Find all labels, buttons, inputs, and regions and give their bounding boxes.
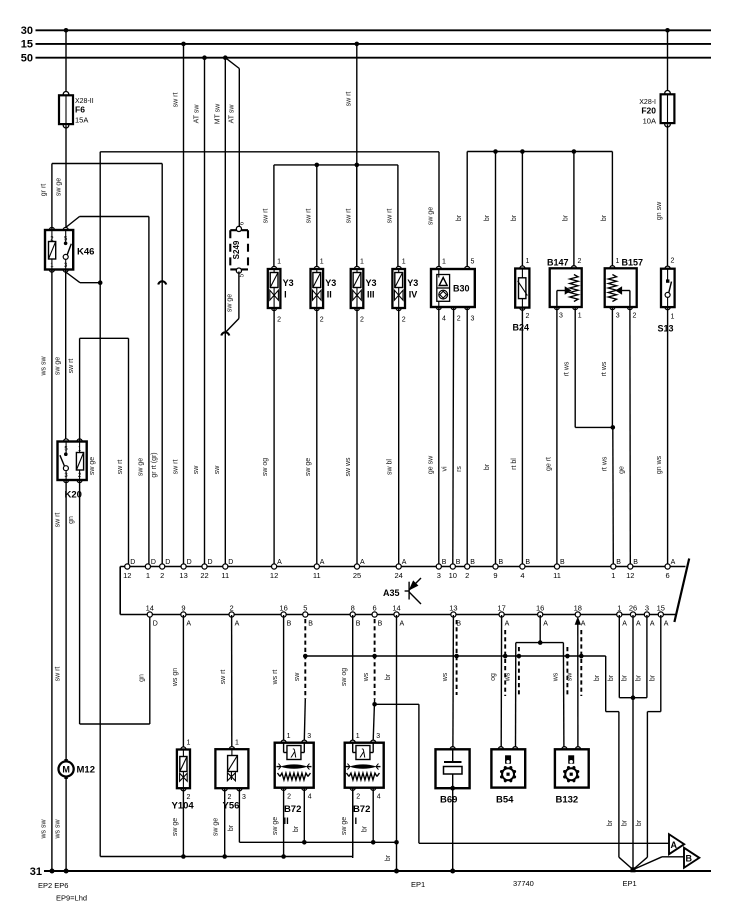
svg-text:2: 2 bbox=[633, 313, 637, 320]
svg-text:4: 4 bbox=[520, 571, 524, 580]
svg-text:B72: B72 bbox=[353, 804, 370, 815]
svg-text:9: 9 bbox=[493, 571, 497, 580]
wire br to B24 pin1 bbox=[520, 149, 525, 154]
svg-text:2: 2 bbox=[160, 571, 164, 580]
svg-text:A: A bbox=[402, 559, 407, 566]
capacitor B69 bbox=[450, 747, 455, 752]
svg-text:sw rt: sw rt bbox=[345, 92, 352, 107]
svg-text:br: br bbox=[362, 825, 369, 832]
svg-text:B54: B54 bbox=[496, 795, 514, 806]
sensor B24 bbox=[520, 266, 525, 271]
sensor B54 bbox=[498, 747, 503, 752]
A35 bottom pin 1A bbox=[617, 612, 622, 617]
svg-text:11: 11 bbox=[553, 571, 561, 580]
splice on gr rt wire bbox=[158, 281, 166, 284]
A35 bottom pin 8B bbox=[350, 612, 355, 617]
A35 bottom pin 18A bbox=[575, 612, 580, 617]
svg-text:1: 1 bbox=[442, 259, 446, 266]
svg-text:1: 1 bbox=[360, 259, 364, 266]
wire B72 II pin4 br bbox=[303, 788, 305, 843]
wire A35 B8 sw og to B72-I pin1 bbox=[352, 615, 354, 740]
wire sw ge horizontal to B30 pin1 bbox=[100, 151, 439, 153]
shield bus bbox=[305, 655, 605, 657]
svg-text:Y3: Y3 bbox=[325, 278, 336, 288]
svg-text:A: A bbox=[671, 559, 676, 566]
svg-text:br: br bbox=[385, 854, 392, 861]
ground point EP1 bbox=[631, 867, 636, 872]
svg-text:13: 13 bbox=[179, 571, 187, 580]
svg-text:30: 30 bbox=[21, 25, 33, 37]
svg-text:sw ge: sw ge bbox=[272, 817, 279, 835]
A35 bottom pin 16A bbox=[538, 612, 543, 617]
svg-text:EP2 EP6: EP2 EP6 bbox=[38, 881, 68, 890]
svg-text:sw ge: sw ge bbox=[172, 818, 179, 836]
svg-text:EP9=Lhd: EP9=Lhd bbox=[56, 894, 87, 903]
off-page arrow A bbox=[669, 834, 684, 854]
svg-text:1: 1 bbox=[320, 259, 324, 266]
A35 top pin A24 bbox=[396, 564, 401, 569]
svg-text:sw ge: sw ge bbox=[89, 457, 96, 475]
svg-text:3: 3 bbox=[242, 794, 246, 801]
wire sw rt bus15 to Y3 III bbox=[356, 44, 358, 267]
svg-text:λ: λ bbox=[290, 747, 297, 761]
shield wire at A18 bbox=[580, 630, 582, 696]
wire K46 pin1 ws sw to bus31 bbox=[51, 270, 53, 872]
svg-text:A: A bbox=[636, 621, 641, 628]
svg-text:A: A bbox=[622, 621, 627, 628]
svg-text:M: M bbox=[62, 764, 70, 774]
svg-text:16: 16 bbox=[536, 604, 544, 613]
wire MT sw bus50 to A35 D11 bbox=[224, 58, 226, 564]
A35 top pin D13 bbox=[181, 564, 186, 569]
svg-text:ws sw: ws sw bbox=[55, 819, 62, 840]
lambda sensor B72 I bbox=[350, 740, 355, 745]
sensor B157 bbox=[610, 266, 615, 271]
svg-text:gr rt: gr rt bbox=[40, 184, 47, 197]
svg-text:I: I bbox=[355, 816, 358, 827]
valve Y3 II bbox=[314, 266, 319, 271]
svg-text:λ: λ bbox=[359, 747, 366, 761]
svg-text:br: br bbox=[511, 214, 518, 221]
svg-text:1: 1 bbox=[187, 740, 191, 747]
svg-text:A: A bbox=[400, 621, 405, 628]
sensor B147 bbox=[571, 266, 576, 271]
wire Y3 III pin2 sw ws to A35 bbox=[356, 308, 358, 564]
sw ge bottom bus bbox=[100, 856, 353, 858]
bus 31 bbox=[44, 870, 711, 872]
wire A35 A26 br to EP1 bbox=[632, 615, 634, 870]
svg-text:B: B bbox=[616, 559, 621, 566]
svg-text:MT sw: MT sw bbox=[214, 103, 221, 124]
svg-text:Y3: Y3 bbox=[407, 278, 418, 288]
svg-text:5: 5 bbox=[471, 259, 475, 266]
svg-text:ge rt: ge rt bbox=[546, 457, 553, 471]
wire F20 to S13 pin2 bbox=[667, 124, 669, 266]
svg-text:1: 1 bbox=[611, 571, 615, 580]
svg-text:6: 6 bbox=[373, 604, 377, 613]
ECU A35 bbox=[119, 567, 121, 615]
wire K46 pin3 branch to sw ge riser bbox=[66, 272, 80, 283]
wire B72 I pin4 br bbox=[372, 788, 374, 843]
svg-text:br: br bbox=[594, 674, 601, 681]
svg-text:15A: 15A bbox=[75, 116, 88, 125]
wire K46 pin2 gr rt to A35 D2 bbox=[51, 164, 53, 231]
junction bus50/AT bbox=[202, 55, 207, 60]
A35 connector symbol bbox=[408, 582, 410, 600]
svg-text:br: br bbox=[293, 825, 300, 832]
svg-text:ws gn: ws gn bbox=[172, 668, 179, 687]
svg-text:rt ws: rt ws bbox=[564, 361, 571, 376]
A35 bottom pin 13B bbox=[451, 612, 456, 617]
svg-text:EP1: EP1 bbox=[623, 879, 637, 888]
wire br to B147 pin2 bbox=[572, 149, 577, 154]
svg-text:3: 3 bbox=[616, 313, 620, 320]
wire K20 pin2 gn to A35 D14 bbox=[79, 480, 81, 724]
wire B157 pin2 ge to A35 B12 bbox=[629, 307, 631, 564]
svg-text:37740: 37740 bbox=[513, 879, 534, 888]
wire B30 pin2 vi to A35 B10 bbox=[452, 307, 455, 564]
svg-text:sw: sw bbox=[214, 465, 221, 475]
svg-text:11: 11 bbox=[313, 571, 321, 580]
svg-text:ws sw: ws sw bbox=[40, 356, 47, 377]
svg-text:B: B bbox=[633, 559, 638, 566]
svg-text:A: A bbox=[277, 559, 282, 566]
svg-text:B: B bbox=[525, 559, 530, 566]
wire bus30 to F6 bbox=[65, 30, 67, 94]
svg-text:br: br bbox=[649, 674, 656, 681]
svg-text:F6: F6 bbox=[75, 105, 85, 115]
svg-text:B: B bbox=[470, 559, 475, 566]
svg-text:sw rt: sw rt bbox=[305, 209, 312, 224]
svg-text:rt ws: rt ws bbox=[601, 361, 608, 376]
wire br to A35 B9 bbox=[493, 149, 498, 154]
wire M12 ws sw to bus31 bbox=[65, 778, 67, 872]
fuse F6 bbox=[63, 92, 69, 98]
wire A35 A2 sw rt to Y56 bbox=[231, 615, 233, 747]
svg-text:A: A bbox=[671, 840, 678, 850]
wire sw ge riser/top feed bbox=[99, 152, 101, 857]
svg-text:26: 26 bbox=[629, 604, 637, 613]
relay K20 bbox=[64, 439, 69, 444]
relay K46 bbox=[49, 227, 54, 232]
svg-text:AT sw: AT sw bbox=[194, 104, 201, 124]
svg-text:1: 1 bbox=[616, 258, 620, 265]
wire Y3 I pin2 sw og to A35 bbox=[273, 308, 275, 564]
svg-text:1: 1 bbox=[287, 733, 291, 740]
svg-text:sw rt: sw rt bbox=[386, 209, 393, 224]
svg-text:rs: rs bbox=[456, 466, 463, 472]
A35 top pin D1 bbox=[145, 564, 150, 569]
svg-text:1: 1 bbox=[402, 259, 406, 266]
svg-text:50: 50 bbox=[21, 53, 33, 65]
A35 top pin B9 bbox=[493, 564, 498, 569]
svg-text:1: 1 bbox=[578, 313, 582, 320]
wire A35 B16 ws rt to B72-II pin1 bbox=[283, 615, 285, 740]
svg-text:2: 2 bbox=[465, 571, 469, 580]
svg-text:ws sw: ws sw bbox=[40, 819, 47, 840]
svg-text:D: D bbox=[151, 559, 156, 566]
A35 top pin D22 bbox=[202, 564, 207, 569]
svg-text:1: 1 bbox=[356, 733, 360, 740]
A35 bottom pin 2A bbox=[229, 612, 234, 617]
wire A35 A1 br bbox=[618, 615, 620, 698]
svg-text:ws: ws bbox=[363, 672, 370, 682]
wire B30 pin4 ge sw to A35 B3 bbox=[438, 307, 440, 564]
A35 bottom pin 5B bbox=[303, 612, 308, 617]
wire Y3 II pin2 sw ge to A35 bbox=[316, 308, 318, 564]
svg-text:3: 3 bbox=[559, 313, 563, 320]
wire A35 A18 sw to B132 (arrow up) bbox=[575, 618, 580, 625]
svg-text:A: A bbox=[543, 621, 548, 628]
wire B30 pin3 rs to A35 B2 bbox=[466, 307, 468, 564]
svg-text:sw ge: sw ge bbox=[305, 458, 312, 476]
svg-text:A: A bbox=[505, 621, 510, 628]
svg-text:12: 12 bbox=[123, 571, 131, 580]
svg-text:31: 31 bbox=[30, 866, 42, 878]
svg-text:sw ge: sw ge bbox=[213, 818, 220, 836]
shield wire at B13 bbox=[456, 620, 458, 695]
splice on MT/S249 wire bbox=[221, 332, 229, 335]
wire B72 I pin2 sw ge bbox=[352, 788, 354, 858]
svg-text:B24: B24 bbox=[513, 323, 530, 333]
svg-text:A: A bbox=[664, 621, 669, 628]
svg-text:10A: 10A bbox=[643, 117, 656, 126]
svg-text:2: 2 bbox=[578, 258, 582, 265]
svg-text:B69: B69 bbox=[440, 795, 457, 806]
junction bus30/F20 bbox=[665, 28, 670, 33]
svg-text:8: 8 bbox=[351, 604, 355, 613]
svg-text:4: 4 bbox=[442, 316, 446, 323]
svg-text:br: br bbox=[484, 214, 491, 221]
svg-text:1: 1 bbox=[671, 314, 675, 321]
svg-text:B: B bbox=[356, 621, 361, 628]
svg-text:rt ws: rt ws bbox=[601, 456, 608, 471]
svg-text:18: 18 bbox=[574, 604, 582, 613]
svg-text:2: 2 bbox=[402, 317, 406, 324]
svg-text:EP1: EP1 bbox=[411, 880, 425, 889]
svg-text:1: 1 bbox=[526, 258, 530, 265]
valve Y56 bbox=[229, 747, 234, 752]
svg-text:3: 3 bbox=[376, 733, 380, 740]
A35 top pin B2 bbox=[465, 564, 470, 569]
svg-text:1: 1 bbox=[146, 571, 150, 580]
svg-text:br: br bbox=[456, 214, 463, 221]
svg-text:M12: M12 bbox=[77, 765, 95, 776]
svg-text:Y3: Y3 bbox=[283, 278, 294, 288]
svg-text:12: 12 bbox=[626, 571, 634, 580]
valve Y3 I bbox=[272, 266, 277, 271]
svg-text:D: D bbox=[228, 559, 233, 566]
wire Y3 IV pin2 sw bl to A35 bbox=[398, 308, 400, 564]
junction bus15/x356 bbox=[355, 42, 360, 47]
svg-text:sw rt: sw rt bbox=[173, 93, 180, 108]
svg-text:sw rt: sw rt bbox=[55, 513, 62, 528]
valve Y3 IV bbox=[396, 266, 401, 271]
svg-text:B: B bbox=[287, 621, 292, 628]
A35 top pin B1 bbox=[611, 564, 616, 569]
svg-text:A: A bbox=[235, 621, 240, 628]
wire F6 to K46 pin5 bbox=[65, 125, 67, 229]
svg-text:3: 3 bbox=[471, 316, 475, 323]
svg-text:sw: sw bbox=[193, 465, 200, 475]
svg-text:2: 2 bbox=[356, 794, 360, 801]
A35 top pin B11 bbox=[554, 564, 559, 569]
svg-text:br: br bbox=[607, 819, 614, 826]
svg-text:ws rt: ws rt bbox=[272, 670, 279, 686]
svg-text:B72: B72 bbox=[284, 804, 301, 815]
svg-text:sw rt: sw rt bbox=[117, 460, 124, 475]
svg-text:B147: B147 bbox=[547, 258, 569, 268]
svg-text:sw ge: sw ge bbox=[56, 178, 63, 196]
br bus bbox=[467, 151, 612, 153]
svg-text:ws: ws bbox=[504, 672, 511, 682]
wire B72 II pin2 sw ge bbox=[283, 788, 285, 858]
svg-text:sw rt: sw rt bbox=[220, 670, 227, 685]
wire K20 pin1 sw rt bridge to A35 D12 bbox=[79, 338, 81, 441]
svg-text:sw og: sw og bbox=[262, 458, 269, 476]
svg-text:13: 13 bbox=[449, 604, 457, 613]
svg-text:3: 3 bbox=[645, 604, 649, 613]
svg-text:1: 1 bbox=[277, 259, 281, 266]
svg-text:14: 14 bbox=[146, 604, 154, 613]
svg-text:25: 25 bbox=[353, 571, 361, 580]
shield wire at A17 bbox=[504, 630, 506, 696]
wire bus30 to F20 bbox=[667, 30, 669, 93]
svg-text:sw og: sw og bbox=[341, 668, 348, 686]
svg-text:B132: B132 bbox=[556, 795, 579, 806]
switch S13 bbox=[665, 266, 670, 271]
A35 bottom pin 6B bbox=[372, 612, 377, 617]
svg-text:B30: B30 bbox=[453, 284, 470, 294]
svg-text:sw rt: sw rt bbox=[345, 209, 352, 224]
svg-text:1: 1 bbox=[235, 740, 239, 747]
svg-text:ge: ge bbox=[619, 466, 626, 474]
A35 bottom pin 9A bbox=[181, 612, 186, 617]
svg-text:A: A bbox=[320, 559, 325, 566]
wire A35 A16 ws to B54/B132 bbox=[539, 615, 541, 643]
wire AT sw bus50 to S249 pin6 bbox=[225, 58, 239, 69]
lambda sensor B72 II bbox=[281, 740, 286, 745]
svg-text:gn sw: gn sw bbox=[656, 201, 663, 220]
svg-text:I: I bbox=[284, 290, 287, 300]
svg-text:4: 4 bbox=[377, 794, 381, 801]
svg-text:sw rt: sw rt bbox=[55, 667, 62, 682]
svg-text:gn: gn bbox=[138, 674, 145, 682]
svg-text:B157: B157 bbox=[622, 258, 644, 268]
A35 top pin A11 bbox=[314, 564, 319, 569]
svg-text:3: 3 bbox=[437, 571, 441, 580]
svg-text:B: B bbox=[308, 621, 313, 628]
wire A35 A3 br bbox=[646, 615, 648, 698]
svg-text:2: 2 bbox=[457, 316, 461, 323]
A35 top pin D2 bbox=[160, 564, 165, 569]
svg-text:II: II bbox=[327, 290, 332, 300]
A35 top pin B3 bbox=[436, 564, 441, 569]
A35 top pin B10 bbox=[450, 564, 455, 569]
svg-text:br: br bbox=[635, 674, 642, 681]
svg-text:br: br bbox=[621, 819, 628, 826]
svg-text:D: D bbox=[187, 559, 192, 566]
svg-text:3: 3 bbox=[307, 733, 311, 740]
shield drain junction bbox=[372, 702, 377, 707]
wire K46 pin5 to A35 D1 sw ge bbox=[66, 217, 80, 228]
wire AT sw bus50 to A35 D22 bbox=[204, 58, 206, 564]
svg-text:B: B bbox=[499, 559, 504, 566]
switch S249 bbox=[236, 226, 241, 231]
svg-text:6: 6 bbox=[666, 571, 670, 580]
svg-text:sw ge: sw ge bbox=[226, 294, 233, 312]
svg-text:1: 1 bbox=[617, 604, 621, 613]
svg-text:12: 12 bbox=[270, 571, 278, 580]
svg-text:11: 11 bbox=[221, 571, 229, 580]
wire br to B157 pin1 bbox=[611, 152, 613, 267]
A35 bottom pin 26A bbox=[630, 612, 635, 617]
wire B24 pin2 rt bl to A35 B4 bbox=[521, 308, 523, 564]
svg-text:B: B bbox=[442, 559, 447, 566]
svg-text:sw: sw bbox=[294, 672, 301, 682]
svg-text:br: br bbox=[385, 673, 392, 680]
Y3 supply line bbox=[274, 164, 398, 166]
shield wires at A16 bbox=[518, 647, 520, 695]
svg-text:br: br bbox=[608, 674, 615, 681]
wire B147 pin1 rt ws bbox=[574, 307, 576, 427]
wire A35 B13 ws to B69 bbox=[452, 615, 455, 747]
valve Y104 bbox=[181, 747, 186, 752]
wire S13 pin1 gn ws to A35 A6 bbox=[667, 307, 669, 564]
wire B69 to bus31 bbox=[452, 788, 454, 871]
wire B157 pin3 rt ws to A35 B1 bbox=[611, 307, 613, 427]
svg-text:B: B bbox=[456, 559, 461, 566]
A35 bottom pin 14D bbox=[147, 612, 152, 617]
off-page arrow B bbox=[684, 848, 699, 868]
svg-text:14: 14 bbox=[392, 604, 400, 613]
svg-text:br: br bbox=[636, 819, 643, 826]
svg-text:2: 2 bbox=[287, 794, 291, 801]
wire K46 pin3 to K20 pin5 sw ge bbox=[65, 270, 67, 442]
svg-text:2: 2 bbox=[230, 604, 234, 613]
svg-text:5: 5 bbox=[303, 604, 307, 613]
svg-text:A: A bbox=[650, 621, 655, 628]
svg-text:S249: S249 bbox=[232, 240, 241, 259]
A35 top pin B4 bbox=[520, 564, 525, 569]
svg-text:A: A bbox=[186, 621, 191, 628]
svg-text:16: 16 bbox=[279, 604, 287, 613]
wire Y56 pin3 br bbox=[238, 788, 240, 842]
svg-text:2: 2 bbox=[360, 317, 364, 324]
svg-text:sw ge: sw ge bbox=[54, 357, 61, 375]
svg-text:4: 4 bbox=[308, 794, 312, 801]
svg-text:D: D bbox=[165, 559, 170, 566]
A35 bottom pin 15A bbox=[658, 612, 663, 617]
svg-text:og: og bbox=[490, 673, 497, 681]
A35 top pin D11 bbox=[223, 564, 228, 569]
wire sw rt bus15 to A35 D13 bbox=[183, 44, 185, 564]
A35 bottom pin 3A bbox=[644, 612, 649, 617]
shield wire A35 B6 to B72-I pin3 bbox=[374, 619, 376, 699]
br collector to A14 bbox=[394, 840, 399, 845]
svg-text:ws: ws bbox=[442, 672, 449, 682]
svg-text:17: 17 bbox=[497, 604, 505, 613]
svg-text:ge sw: ge sw bbox=[427, 455, 434, 474]
bus 50 bbox=[36, 57, 712, 59]
svg-text:22: 22 bbox=[200, 571, 208, 580]
svg-text:S13: S13 bbox=[658, 324, 674, 334]
svg-text:rt bl: rt bl bbox=[511, 458, 518, 470]
svg-text:2: 2 bbox=[671, 258, 675, 265]
svg-text:15: 15 bbox=[657, 604, 665, 613]
A35 top pin A12 bbox=[272, 564, 277, 569]
svg-text:24: 24 bbox=[395, 571, 403, 580]
